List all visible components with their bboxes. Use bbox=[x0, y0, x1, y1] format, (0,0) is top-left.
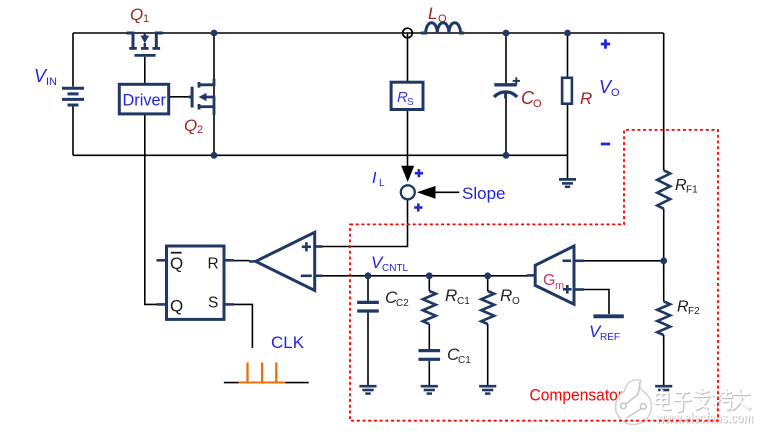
svg-text:R: R bbox=[500, 286, 512, 305]
capacitor CC1 bbox=[419, 351, 441, 360]
watermark chinese text bbox=[656, 390, 750, 412]
wire driver to Q2 gate bbox=[169, 96, 189, 98]
op-amp Gm bbox=[535, 246, 574, 304]
wire RF1 to RF2 bbox=[663, 209, 665, 302]
comparator U2 bbox=[256, 232, 315, 290]
ground under RO bbox=[479, 386, 496, 393]
svg-text:O: O bbox=[533, 98, 542, 110]
wire Cc1 to ground bbox=[428, 361, 430, 386]
ground under CC1 bbox=[421, 386, 438, 393]
wire Gm plus input to Vref bbox=[584, 290, 609, 315]
svg-text:C1: C1 bbox=[457, 296, 470, 307]
wire RF2 to ground bbox=[663, 335, 665, 386]
wire Q1 gate to driver bbox=[144, 57, 146, 85]
slope arrowhead bbox=[417, 186, 436, 199]
wire left branch (Vin bottom) bbox=[72, 106, 74, 155]
transistor Q2 (NMOS) bbox=[189, 79, 214, 116]
resistor RF1 bbox=[657, 170, 670, 208]
wire latch S to clk bbox=[234, 304, 252, 348]
wire Gm minus input bbox=[584, 260, 664, 262]
svg-text:REF: REF bbox=[600, 332, 620, 343]
capacitor CC2 bbox=[357, 302, 379, 311]
wire Rc1 to Cc1 bbox=[428, 324, 430, 349]
node SW circle bbox=[403, 28, 413, 38]
wire R load bottom to ground bbox=[567, 104, 569, 179]
svg-text:2: 2 bbox=[197, 124, 203, 136]
svg-text:S: S bbox=[208, 295, 218, 312]
svg-text:O: O bbox=[438, 13, 447, 25]
wire R load top bbox=[567, 33, 569, 78]
svg-text:G: G bbox=[543, 272, 555, 289]
resistor RS box bbox=[391, 82, 423, 109]
wire right edge from top rail to RF1 bbox=[663, 33, 665, 170]
svg-text:R: R bbox=[208, 256, 219, 273]
wire Co bottom bbox=[505, 98, 507, 155]
svg-text:Slope: Slope bbox=[462, 184, 505, 203]
svg-text:L: L bbox=[428, 4, 437, 23]
ground under R bbox=[559, 179, 576, 186]
svg-text:L: L bbox=[379, 178, 385, 189]
wire comparator output to latch R bbox=[234, 260, 249, 262]
svg-text:C2: C2 bbox=[396, 298, 409, 309]
capacitor CO bbox=[494, 77, 520, 98]
latch box bbox=[167, 246, 225, 319]
wire Ro to ground bbox=[487, 324, 489, 386]
svg-text:F2: F2 bbox=[688, 306, 700, 317]
svg-text:O: O bbox=[512, 296, 520, 307]
ground under RF2 bbox=[655, 386, 672, 393]
wire slope arrow line bbox=[435, 191, 459, 193]
resistor R load box bbox=[562, 78, 572, 104]
wire Rs to IL arrow bbox=[407, 110, 409, 168]
transistor Q1 (PMOS) bbox=[127, 33, 163, 55]
resistor RC1 bbox=[423, 291, 436, 324]
svg-text:O: O bbox=[611, 87, 620, 99]
svg-text:C1: C1 bbox=[458, 355, 471, 366]
svg-text:R: R bbox=[580, 89, 592, 108]
wire node to Rs bbox=[407, 33, 409, 82]
wire Ro branch top bbox=[487, 276, 489, 291]
wire Rc1 branch top bbox=[428, 276, 430, 291]
wire mid rail bbox=[73, 154, 568, 156]
current arrow IL bbox=[401, 166, 414, 182]
wire driver to latch Q bbox=[145, 114, 157, 304]
battery VIN bbox=[62, 88, 84, 105]
wire Cc2 branch bottom bbox=[367, 313, 369, 386]
label VO plus bbox=[601, 39, 610, 48]
label VO minus bbox=[601, 143, 610, 146]
svg-text:F1: F1 bbox=[686, 185, 698, 196]
Vref symbol bbox=[593, 314, 623, 318]
summing node circle bbox=[401, 185, 415, 199]
ground under CC2 bbox=[359, 386, 376, 393]
wire summing node to comparator plus bbox=[322, 200, 408, 247]
latch pin stubs bbox=[157, 260, 235, 304]
clock pulse baseline bbox=[224, 382, 309, 384]
plus below summing node bbox=[414, 203, 422, 211]
svg-text:m: m bbox=[555, 280, 564, 292]
svg-text:S: S bbox=[407, 97, 414, 108]
wire Co top bbox=[505, 33, 507, 84]
resistor RO bbox=[481, 291, 494, 324]
svg-text:Compensator: Compensator bbox=[530, 386, 624, 405]
driver box U1 bbox=[119, 84, 168, 114]
plus above summing node bbox=[415, 169, 423, 177]
watermark logo bbox=[616, 380, 652, 425]
svg-text:R: R bbox=[445, 286, 457, 305]
svg-text:Q: Q bbox=[170, 297, 183, 316]
inductor LO bbox=[421, 23, 464, 33]
svg-text:1: 1 bbox=[143, 13, 149, 25]
svg-text:Q: Q bbox=[170, 254, 183, 273]
svg-text:IN: IN bbox=[46, 76, 57, 88]
clock pulses bbox=[239, 362, 286, 382]
svg-text:CNTL: CNTL bbox=[382, 263, 409, 274]
svg-text:Driver: Driver bbox=[123, 91, 167, 110]
compensator dotted boundary bbox=[350, 130, 718, 421]
svg-text:www.elecfans.com: www.elecfans.com bbox=[655, 410, 753, 427]
svg-text:Q: Q bbox=[184, 116, 197, 135]
wire left branch (Vin top) bbox=[72, 33, 74, 87]
wire Vcntl line bbox=[322, 275, 528, 277]
resistor RF2 bbox=[657, 301, 670, 335]
svg-text:I: I bbox=[372, 170, 377, 187]
wire Cc2 branch top bbox=[367, 276, 369, 301]
wire top rail bbox=[73, 32, 664, 34]
wire Q2 vertical bbox=[213, 33, 215, 155]
svg-text:Q: Q bbox=[130, 5, 143, 24]
svg-text:CLK: CLK bbox=[271, 333, 305, 352]
